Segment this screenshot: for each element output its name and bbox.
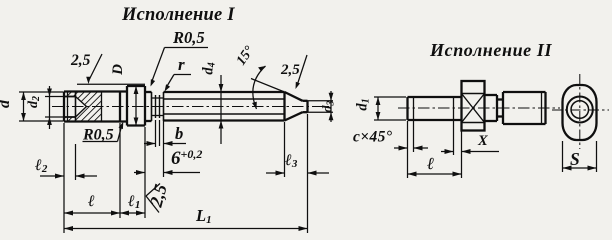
svg-text:r: r xyxy=(178,55,185,74)
end view horizontal centerline xyxy=(552,109,609,111)
dimension X xyxy=(441,120,499,155)
knurl chamfer bottom line xyxy=(462,122,485,124)
dimension d3 xyxy=(308,91,334,122)
local section boundary xyxy=(101,92,103,122)
knurl cross diagonal 2 xyxy=(462,94,485,123)
center hole transition xyxy=(75,92,77,122)
first cylinder top xyxy=(408,96,462,98)
head left face xyxy=(502,92,504,124)
section A top xyxy=(485,94,498,96)
svg-text:b: b xyxy=(175,124,183,143)
edge before knurl xyxy=(453,97,455,120)
center hole cone upper xyxy=(76,97,87,107)
center hole cone lower xyxy=(76,107,87,118)
head right face xyxy=(544,92,546,124)
svg-text:ℓ1: ℓ1 xyxy=(127,193,140,211)
svg-text:2,5: 2,5 xyxy=(70,52,91,69)
svg-text:2,5: 2,5 xyxy=(280,62,300,78)
svg-text:L1: L1 xyxy=(195,206,212,226)
groove wall 4 xyxy=(163,92,165,121)
end view vertical centerline xyxy=(579,74,581,149)
dimension l fig II xyxy=(408,121,462,178)
svg-text:R0,5: R0,5 xyxy=(172,28,205,47)
collar bottom xyxy=(127,124,145,126)
dimension D xyxy=(135,86,137,126)
svg-text:d2: d2 xyxy=(26,96,42,108)
centerline axis figure II xyxy=(398,107,560,109)
shaft inner line bottom xyxy=(164,113,285,115)
dimension l3 xyxy=(266,114,329,233)
tip face xyxy=(306,101,308,112)
svg-text:S: S xyxy=(570,149,580,169)
leader 2,5 rotated xyxy=(146,184,160,197)
svg-text:Исполнение I: Исполнение I xyxy=(121,5,235,25)
edge before collar xyxy=(119,92,121,122)
shaft inner line top xyxy=(164,98,285,100)
svg-text:d3: d3 xyxy=(321,101,337,113)
svg-text:d4: d4 xyxy=(201,62,218,74)
head top xyxy=(503,91,546,93)
dimension b xyxy=(144,120,186,177)
dimension d2 xyxy=(45,86,64,129)
step face xyxy=(496,95,498,121)
first cylinder bottom xyxy=(408,119,462,121)
tip cylinder bottom xyxy=(303,111,308,113)
dimension d4 xyxy=(220,75,222,144)
cone taper bottom xyxy=(285,112,303,120)
cone base xyxy=(283,92,285,121)
groove bottom top line xyxy=(152,97,164,99)
groove bottom bottom line xyxy=(152,115,164,117)
dimension d xyxy=(19,92,63,121)
svg-text:d: d xyxy=(0,99,13,108)
knurl box xyxy=(462,81,485,131)
center hole top edge xyxy=(64,96,76,98)
dimension d1 xyxy=(374,97,406,120)
chamfer edge fig II xyxy=(413,97,415,120)
left face fig II xyxy=(406,97,408,120)
angle 15 extension line xyxy=(251,79,285,93)
dimension L1 xyxy=(64,228,308,230)
end view outer circle xyxy=(567,97,593,123)
svg-text:15°: 15° xyxy=(234,43,258,68)
shaft bottom outline xyxy=(164,119,285,121)
svg-text:ℓ: ℓ xyxy=(427,154,434,173)
collar top xyxy=(127,85,145,87)
d-section top outline xyxy=(64,90,127,92)
groove wall 2 xyxy=(155,95,157,118)
svg-text:6+0,2: 6+0,2 xyxy=(171,147,202,169)
collar left face xyxy=(126,86,128,126)
knurl cross diagonal 1 xyxy=(462,94,485,123)
section A bottom xyxy=(485,120,498,122)
neck top after collar xyxy=(145,91,152,93)
tip cylinder top xyxy=(303,100,308,102)
svg-text:ℓ2: ℓ2 xyxy=(34,157,48,175)
svg-text:Исполнение II: Исполнение II xyxy=(429,40,552,60)
dimension l xyxy=(64,123,120,218)
cone taper top xyxy=(285,92,303,101)
end view outline xyxy=(563,85,597,140)
angle 15 arc xyxy=(253,66,266,109)
shaft top outline xyxy=(164,91,285,93)
neck bottom xyxy=(497,115,503,117)
svg-text:d1: d1 xyxy=(355,98,372,110)
head chamfer edge xyxy=(541,92,543,124)
knurl chamfer top line xyxy=(462,93,485,95)
dimension l1 xyxy=(120,212,145,214)
center hole bottom edge xyxy=(64,116,76,118)
hatch of local section (center hole) xyxy=(64,92,102,122)
neck top xyxy=(497,98,503,100)
groove wall 3 xyxy=(159,95,161,118)
dimension S xyxy=(563,141,597,172)
centerline axis figure I xyxy=(52,106,330,108)
groove wall 1 xyxy=(151,92,153,121)
d-section bottom outline xyxy=(64,120,127,122)
svg-text:ℓ: ℓ xyxy=(87,193,95,210)
dimension 6+0,2 xyxy=(134,127,200,218)
neck bottom after collar xyxy=(145,120,152,122)
head bottom xyxy=(503,123,546,125)
dimension l2 xyxy=(40,123,97,233)
svg-text:ℓ3: ℓ3 xyxy=(284,152,298,170)
svg-text:2,5: 2,5 xyxy=(145,182,170,210)
left face xyxy=(63,92,65,122)
end view inner circle xyxy=(571,101,589,119)
chamfer edge left end xyxy=(67,92,69,122)
svg-text:X: X xyxy=(477,133,488,149)
svg-text:c×45°: c×45° xyxy=(353,129,393,146)
collar right face xyxy=(144,86,146,126)
svg-text:D: D xyxy=(110,64,126,76)
